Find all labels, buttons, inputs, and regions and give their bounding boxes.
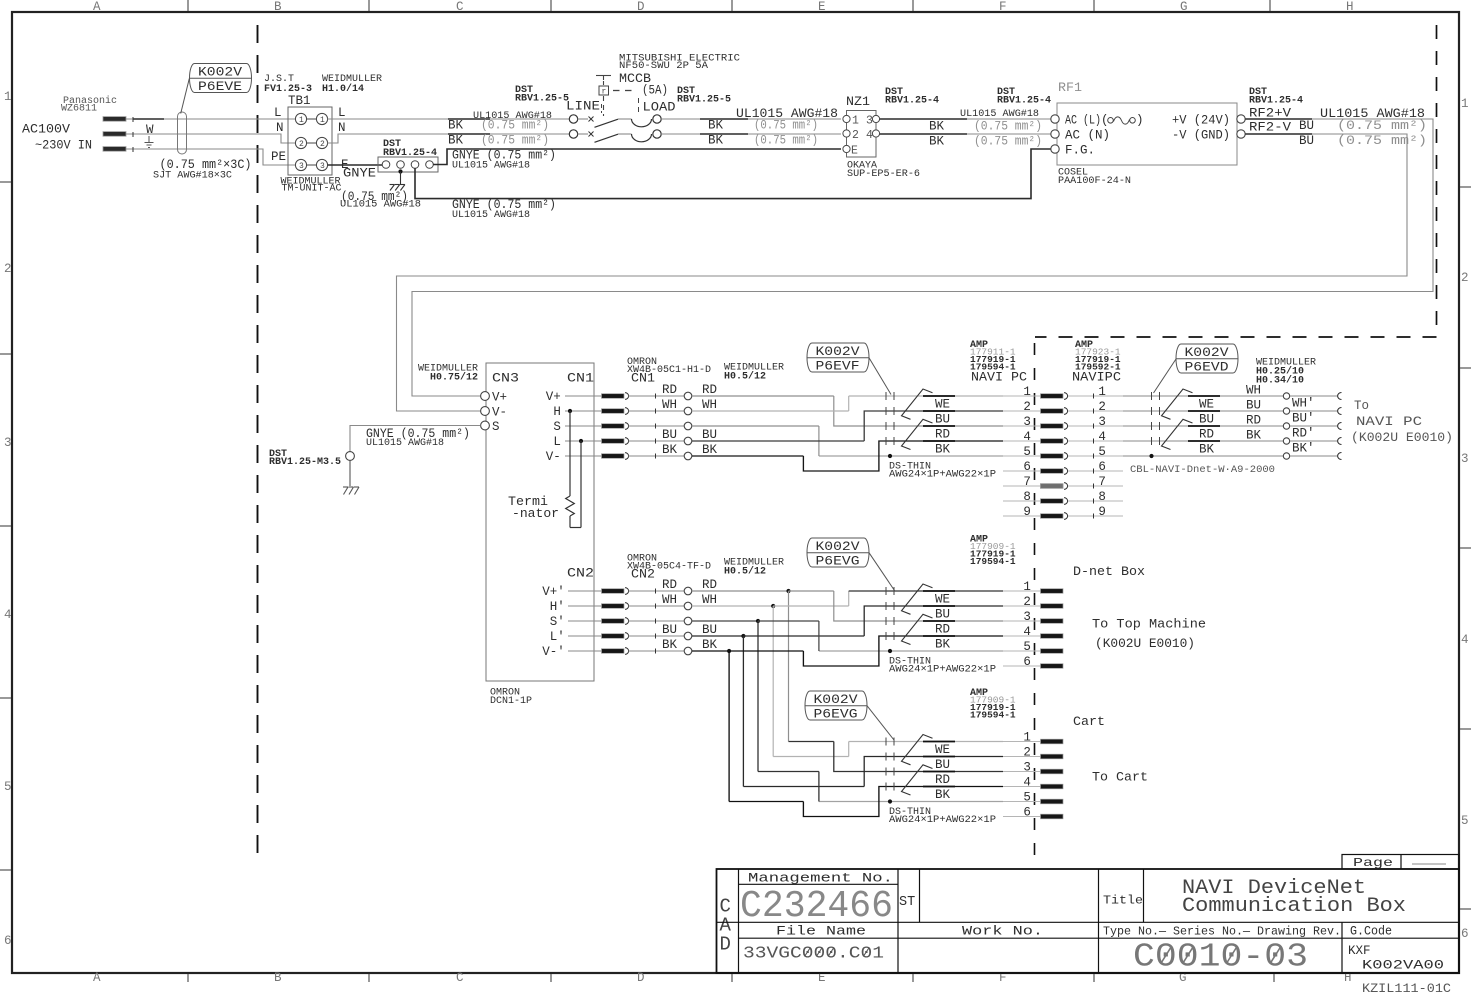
MCCB trip symbol [596,75,611,77]
svg-text:BK: BK [935,443,951,457]
svg-text:L: L [553,435,561,449]
svg-text:NZ1: NZ1 [846,95,870,109]
svg-text:(0.75 mm²): (0.75 mm²) [974,120,1042,134]
svg-text:4: 4 [866,129,873,142]
svg-text:P6EVF: P6EVF [816,360,860,374]
svg-text:6: 6 [1023,655,1031,669]
svg-text:Title: Title [1103,894,1143,908]
wire L branch to pin2 [692,440,864,442]
svg-text:2: 2 [4,262,12,276]
svg-text:E: E [851,145,858,158]
svg-text:B: B [274,0,282,14]
cable entry marks [885,392,887,400]
cable junction dot [888,454,892,458]
svg-text:C: C [456,971,464,985]
wire NZ1-3 to RF1 ACL [880,118,1051,120]
junction CN2 row 5 branch [692,650,729,652]
svg-text:5: 5 [1098,445,1106,459]
svg-text:4: 4 [4,608,12,622]
dashed enclosure boundary left [257,25,259,862]
wire L branch to pin2 [864,757,1003,787]
twisted pair symbol 2 [1162,419,1193,449]
balloon leader [867,706,894,740]
svg-text:3: 3 [1098,415,1106,429]
MCCB pole 1 [569,115,577,123]
svg-text:UL1015 AWG#18: UL1015 AWG#18 [366,438,444,449]
svg-text:WE: WE [935,398,950,412]
cable junction dot [888,649,892,653]
svg-text:D: D [720,934,731,956]
wire color code labels [923,741,955,743]
svg-text:DCN1-1P: DCN1-1P [490,696,532,707]
svg-text:RBV1.25-4: RBV1.25-4 [997,96,1051,107]
svg-text:UL1015 AWG#18: UL1015 AWG#18 [452,161,530,172]
svg-text:(K002U E0010): (K002U E0010) [1095,637,1195,651]
svg-text:RD: RD [702,578,717,592]
svg-text:WE: WE [1199,398,1214,412]
cable entry marks [885,587,887,595]
svg-text:B: B [274,971,282,985]
title block frame [717,869,1460,973]
svg-text:1: 1 [1098,385,1106,399]
wire L MCCB to NZ1 [661,118,841,120]
svg-text:K002V: K002V [1185,346,1230,360]
svg-text:2: 2 [1461,271,1469,285]
page box [1342,855,1459,870]
svg-text:(0.75 mm²): (0.75 mm²) [481,134,549,148]
svg-text:RBV1.25-M3.5: RBV1.25-M3.5 [269,457,341,468]
svg-text:V-: V- [546,450,561,464]
svg-text:5: 5 [1023,640,1031,654]
svg-text:WE: WE [935,743,950,757]
open connector hooks [1338,393,1342,400]
svg-text:7: 7 [1098,475,1106,489]
twisted pair symbol 1 [902,735,933,765]
svg-text:9: 9 [1023,505,1031,519]
svg-text:RBV1.25-4: RBV1.25-4 [885,96,939,107]
svg-text:BK: BK [1246,429,1262,443]
svg-text:S: S [553,420,561,434]
wire V+ branch to pin3 [834,591,1003,621]
svg-text:(0.75 mm²): (0.75 mm²) [1337,134,1427,148]
svg-text:D: D [637,0,645,14]
svg-text:BK: BK [448,119,464,133]
svg-text:K002VA00: K002VA00 [1362,959,1444,973]
junction CN2 row 4 branch [692,635,743,637]
wire V- branch to pin4 [803,787,1003,817]
svg-text:3: 3 [299,162,304,171]
svg-text:NAVI PC: NAVI PC [971,370,1027,385]
MCCB pole 2 [569,130,577,138]
svg-text:3: 3 [1023,415,1031,429]
svg-text:LINE: LINE [566,100,600,114]
svg-text:5: 5 [1461,814,1469,828]
svg-text:1: 1 [1023,731,1031,745]
plug blade PE [103,147,126,152]
svg-text:K002V: K002V [816,345,861,359]
svg-text:1: 1 [320,116,325,125]
svg-text:RBV1.25-5: RBV1.25-5 [677,95,731,106]
svg-text:AC (L): AC (L) [1065,114,1101,128]
svg-text:BU: BU [662,428,677,442]
svg-text:AWG24×1P+AWG22×1P: AWG24×1P+AWG22×1P [889,665,996,676]
cable junction dot [888,799,892,803]
svg-text:9: 9 [1098,505,1106,519]
svg-text:BU: BU [935,608,950,622]
MCCB dash to rating [613,90,620,92]
svg-text:6: 6 [4,934,12,948]
svg-text:(0.75 mm²): (0.75 mm²) [754,134,818,148]
svg-text:2: 2 [1098,400,1106,414]
svg-text:CN1: CN1 [631,372,655,386]
ground lead [400,172,402,185]
svg-text:E: E [818,0,826,14]
svg-text:1: 1 [852,115,859,128]
twisted pair symbol 1 [902,389,933,419]
svg-text:1: 1 [4,90,12,104]
svg-text:BU: BU [935,413,950,427]
svg-text:P6EVD: P6EVD [1185,361,1229,375]
cable balloon K002V P6EVG Cart [805,691,867,720]
svg-text:3: 3 [1023,610,1031,624]
wire GNYE 2 to RF1 FG [415,149,1051,199]
svg-text:PAA100F-24-N: PAA100F-24-N [1058,176,1131,187]
twisted pair symbol 1 [902,584,933,614]
ground symbol 777 [343,486,348,488]
svg-text:+V (24V): +V (24V) [1172,114,1230,128]
svg-text:r: r [602,88,607,97]
junction CN2 row 2 branch [692,605,773,607]
svg-text:WH': WH' [1292,397,1315,411]
svg-text:RBV1.25-5: RBV1.25-5 [515,94,569,105]
svg-text:RD: RD [935,773,950,787]
svg-text:3: 3 [1461,452,1469,466]
svg-text:4: 4 [1461,633,1469,647]
svg-text:RF2-V: RF2-V [1249,121,1292,135]
frame column ticks top [187,0,189,11]
svg-text:-V (GND): -V (GND) [1172,129,1230,143]
svg-text:S': S' [550,615,565,629]
svg-text:SUP-EP5-ER-6: SUP-EP5-ER-6 [847,169,920,180]
svg-text:3: 3 [866,115,873,128]
svg-text:Page: Page [1353,856,1393,870]
title block CAD column [738,869,740,973]
svg-text:BK: BK [662,638,678,652]
svg-text:F.G.: F.G. [1065,144,1095,158]
svg-text:4: 4 [1023,776,1031,790]
frame row ticks left [0,181,11,183]
svg-text:V-': V-' [542,645,565,659]
svg-text:BK: BK [702,443,718,457]
svg-text:CN3: CN3 [492,372,519,386]
junction on ground strip [398,169,402,173]
svg-text:H1.0/14: H1.0/14 [322,83,364,95]
wire L TB1 to MCCB [328,118,570,120]
svg-text:5: 5 [1023,791,1031,805]
wire +V 24V loop to CN3 V+ [412,119,1433,396]
svg-text:To Cart: To Cart [1092,771,1148,785]
svg-text:BU: BU [935,758,950,772]
cable balloon K002V P6EVE [190,64,252,93]
svg-text:BK: BK [708,119,724,133]
svg-text:V+: V+ [546,390,561,404]
svg-text:File Name: File Name [776,925,866,939]
wire GNYE 1 to NZ1 E [433,149,841,165]
svg-text:S: S [492,420,500,434]
svg-text:4: 4 [1098,430,1106,444]
svg-text:BU': BU' [1292,412,1315,426]
svg-text:BU: BU [1299,119,1314,133]
svg-text:H0.34/10: H0.34/10 [1256,375,1304,387]
svg-text:3: 3 [320,162,325,171]
svg-text:A: A [93,971,101,985]
svg-text:L: L [338,106,346,120]
svg-text:6: 6 [1023,806,1031,820]
DST ground terminal strip [378,157,438,172]
balloon leader [869,358,891,395]
svg-text:UL1015 AWG#18: UL1015 AWG#18 [340,200,421,211]
svg-text:BU: BU [1299,134,1314,148]
svg-text:Management No.: Management No. [748,872,893,886]
svg-text:BK': BK' [1292,442,1315,456]
svg-text:K002V: K002V [814,693,859,707]
svg-text:C232466: C232466 [740,885,893,928]
svg-text:C: C [456,0,464,14]
svg-text:BK: BK [929,120,945,134]
svg-text:RD: RD [935,428,950,442]
svg-text:ST: ST [899,895,915,910]
cart crossover horizontals [789,741,834,743]
wires NAVI PC receptacle to cable [1123,395,1283,397]
svg-text:7: 7 [1023,475,1031,489]
svg-text:NF50-SWU 2P 5A: NF50-SWU 2P 5A [619,61,708,72]
svg-text:5: 5 [1023,445,1031,459]
balloon leader to cable [181,79,190,114]
svg-text:P6EVG: P6EVG [814,708,858,722]
svg-text:(0.75 mm²): (0.75 mm²) [481,119,549,133]
svg-text:Cart: Cart [1073,715,1105,729]
svg-text:H: H [1346,0,1354,14]
svg-text:BU: BU [702,428,717,442]
svg-text:G.Code: G.Code [1350,925,1392,939]
svg-text:Work No.: Work No. [962,925,1043,939]
svg-text:6: 6 [1461,927,1469,941]
svg-text:BU: BU [662,623,677,637]
svg-text:RD: RD [1199,428,1214,442]
wire L plug to TB1 [126,118,295,120]
svg-text:CBL-NAVI-Dnet-W·A9-2000: CBL-NAVI-Dnet-W·A9-2000 [1130,465,1275,476]
wire color code labels cable side [1188,395,1220,397]
svg-text:WH: WH [662,398,677,412]
svg-text:L': L' [550,630,565,644]
wire L branch to pin2 [864,606,1003,636]
svg-text:To Top Machine: To Top Machine [1092,618,1206,632]
svg-text:2: 2 [1023,400,1031,414]
wire N TB1 to MCCB [328,134,570,143]
ferrule circles [1283,393,1289,399]
ground terminal DST RBV1.25-M3.5 [346,452,355,461]
frame column ticks bottom [187,974,189,982]
svg-text:CN2: CN2 [631,568,655,582]
wire S branch to pin5 [819,650,1003,652]
svg-text:179594-1: 179594-1 [970,710,1016,721]
cable entry marks NAVI PC cable [1151,392,1153,400]
svg-text:RBV1.25-4: RBV1.25-4 [1249,96,1303,107]
svg-text:P6EVG: P6EVG [816,555,860,569]
svg-text:TB1: TB1 [288,94,311,108]
cable marker oval [178,112,187,154]
svg-text:(0.75 mm²): (0.75 mm²) [754,119,818,133]
earth symbol on N wire [148,136,150,143]
twisted pair symbol 2 [902,419,933,449]
svg-text:8: 8 [1023,490,1031,504]
svg-text:5: 5 [4,780,12,794]
wire H branch to pin1 [692,410,849,412]
wire S branch to pin5 [692,425,819,427]
svg-text:BU: BU [1246,399,1261,413]
svg-text:BK: BK [702,638,718,652]
svg-text:AC (N): AC (N) [1065,129,1110,143]
terminator resistor [569,411,571,496]
svg-text:H': H' [550,600,565,614]
wire S branch to pin5 [819,801,1003,803]
svg-text:BK: BK [929,135,945,149]
svg-text:NAVI PC: NAVI PC [1356,415,1422,429]
svg-text:8: 8 [1098,490,1106,504]
svg-text:V+': V+' [542,585,565,599]
terminator junction on L [579,439,583,443]
svg-text:3: 3 [1023,761,1031,775]
svg-text:LOAD: LOAD [643,101,676,115]
svg-text:): ) [1136,114,1144,128]
dashed enclosure boundary horizontal [1035,336,1437,338]
svg-text:KXF: KXF [1348,944,1371,958]
svg-text:6: 6 [1098,460,1106,474]
svg-text:(K002U E0010): (K002U E0010) [1351,431,1453,445]
svg-text:P6EVE: P6EVE [198,80,242,94]
svg-text:K002V: K002V [198,66,243,80]
svg-text:(0.75 mm²): (0.75 mm²) [1337,119,1427,133]
cable junction dot [1149,454,1153,458]
svg-text:RD: RD [935,623,950,637]
svg-text:6: 6 [1023,460,1031,474]
svg-text:RD: RD [662,383,677,397]
svg-text:A: A [93,0,101,14]
cable balloon K002V P6EVG D-net [807,538,869,567]
title block vertical dividers [897,869,899,973]
svg-text:H: H [553,405,561,419]
connector box OMRON DCN1-1P [486,363,594,681]
svg-text:-nator: -nator [512,507,559,521]
svg-text:1: 1 [1461,97,1469,111]
svg-text:RD: RD [662,578,677,592]
wire PE plug to TB1 [126,149,295,165]
svg-text:WH: WH [702,593,717,607]
svg-text:2: 2 [852,129,859,142]
svg-text:SJT AWG#18×3C: SJT AWG#18×3C [153,171,232,182]
svg-text:BK: BK [935,788,951,802]
svg-text:179594-1: 179594-1 [970,556,1016,567]
svg-text:RD: RD [702,383,717,397]
svg-text:UL1015 AWG#18: UL1015 AWG#18 [452,210,530,221]
wire NZ1-4 to RF1 ACN [880,133,1051,135]
wire V- branch to pin4 [692,455,803,457]
wire V- branch to pin4 [803,636,1003,666]
plug blade N [103,132,126,137]
wire V+ branch to pin3 [692,395,834,397]
svg-text:N: N [338,121,346,135]
svg-text:RF1: RF1 [1058,81,1082,95]
svg-text:AWG24×1P+AWG22×1P: AWG24×1P+AWG22×1P [889,470,996,481]
svg-text:1: 1 [1023,385,1031,399]
svg-text:V+: V+ [492,391,507,405]
svg-text:WH: WH [662,593,677,607]
wire color code labels [923,395,955,397]
dashed enclosure boundary right upper [1436,25,1438,337]
svg-text:H0.75/12: H0.75/12 [430,372,478,384]
wire N MCCB to NZ1 [661,133,841,135]
twisted pair symbol 2 [902,614,933,644]
svg-text:1: 1 [299,116,304,125]
cable entry marks [885,738,887,746]
cable balloon K002V P6EVF [807,343,869,372]
svg-text:UL1015 AWG#18: UL1015 AWG#18 [960,109,1039,120]
wire CN3 S to ground terminal [350,426,481,452]
svg-text:F: F [999,0,1007,14]
svg-text:CN2: CN2 [567,567,594,581]
svg-text:D: D [637,971,645,985]
svg-text:2: 2 [299,140,304,149]
svg-text:RD': RD' [1292,427,1315,441]
svg-text:4: 4 [1023,625,1031,639]
svg-text:V-: V- [492,406,507,420]
svg-text:WH: WH [1246,384,1261,398]
svg-text:33VGC000.C01: 33VGC000.C01 [743,945,884,964]
ground symbol 777 [390,184,395,186]
svg-text:~230V IN: ~230V IN [35,139,92,153]
svg-text:RD: RD [1246,414,1261,428]
junction CN2 row 1 branch [692,590,789,592]
svg-text:BK: BK [935,638,951,652]
svg-text:WE: WE [935,593,950,607]
svg-text:BK: BK [1199,443,1215,457]
svg-text:G: G [1180,0,1188,14]
svg-text:3: 3 [4,436,12,450]
svg-text:BK: BK [708,134,724,148]
wire V+ branch to pin3 [834,742,1003,772]
terminator junction on H [568,409,572,413]
svg-text:H0.5/12: H0.5/12 [724,566,766,578]
svg-text:2: 2 [1023,746,1031,760]
svg-text:1: 1 [1023,580,1031,594]
svg-text:PE: PE [271,150,286,164]
svg-text:D-net Box: D-net Box [1073,565,1145,579]
svg-text:K002V: K002V [816,540,861,554]
svg-text:Type No.— Series No.— Drawing: Type No.— Series No.— Drawing Rev. [1103,925,1341,939]
svg-text:2: 2 [320,140,325,149]
svg-text:NAVIPC: NAVIPC [1072,370,1121,385]
twisted pair symbol 1 [1162,389,1193,419]
twisted pair symbol 2 [902,765,933,795]
title block horizontal lines [739,883,899,885]
svg-text:AC100V: AC100V [22,123,71,137]
svg-text:H0.5/12: H0.5/12 [724,371,766,383]
junction CN2 row 3 branch [692,620,758,622]
balloon leader [869,553,895,591]
svg-text:KZIL111-01C: KZIL111-01C [1362,982,1451,993]
wire H branch to pin1 [848,742,850,757]
wire E TB1 to DST strip [328,164,383,166]
